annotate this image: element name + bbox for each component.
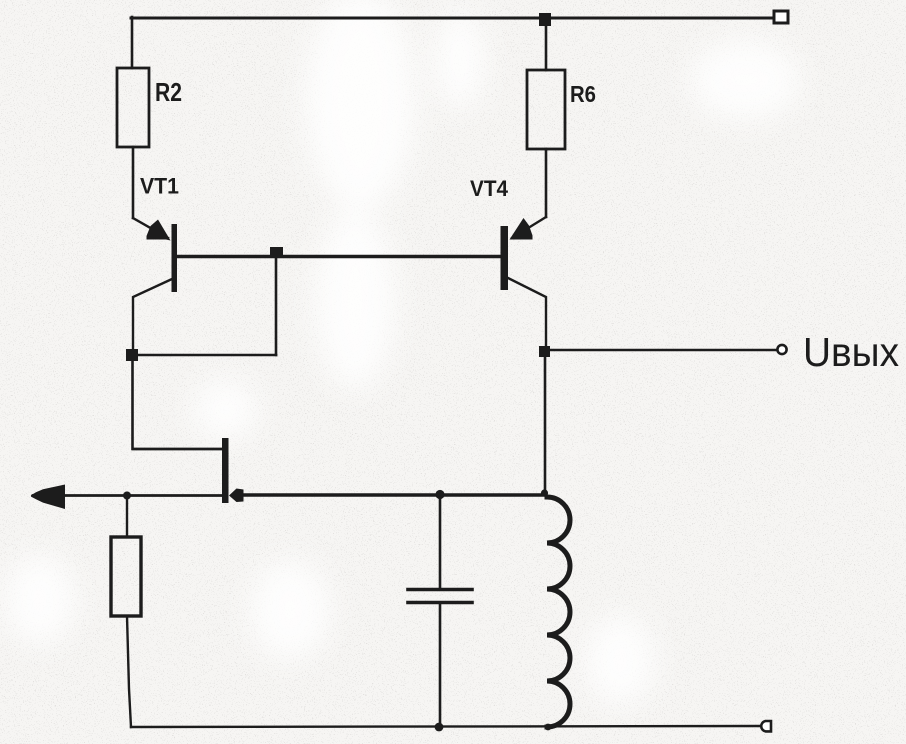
node output junction: [539, 346, 550, 357]
node tank junction: [541, 489, 548, 496]
wire R6 top lead: [545, 19, 548, 70]
svg-text:R6: R6: [570, 81, 596, 107]
transistor VT1 collector wire: [133, 279, 172, 355]
transistor VT1 emitter wire: [133, 218, 168, 238]
wire bottom rail: [131, 726, 760, 727]
wire R2 top lead: [131, 17, 134, 68]
wire capacitor bottom lead: [439, 604, 442, 727]
transistor VT4 base bar: [501, 226, 509, 290]
node capacitor junction: [435, 490, 444, 499]
wire output: [550, 349, 777, 351]
node coil bottom: [545, 724, 552, 731]
terminal bottom-right: [761, 721, 771, 731]
resistor R6: [527, 70, 565, 149]
wire VT4 collector to tank: [544, 357, 547, 492]
transistor VT4 emitter wire: [512, 217, 546, 238]
transistor VT4 emitter arrow: [510, 218, 533, 240]
transistor VT4 collector wire: [508, 278, 546, 351]
transistor VT2 collector wire: [133, 448, 222, 451]
resistor R3: [111, 537, 141, 616]
svg-text:VT1: VT1: [140, 174, 179, 199]
wire top rail: [131, 17, 773, 20]
node bottom rail capacitor: [435, 723, 444, 732]
svg-text:Uвых: Uвых: [803, 329, 899, 375]
wire capacitor top lead: [439, 495, 442, 588]
node input junction: [123, 492, 131, 500]
transistor VT2 emitter arrow: [229, 489, 244, 503]
transistor VT1 base bar: [172, 224, 178, 292]
wire VT1 base to VT4 base: [177, 255, 500, 258]
svg-text:VT4: VT4: [470, 176, 509, 201]
terminal output: [777, 345, 786, 354]
wire VT1 collector down: [133, 355, 223, 449]
wire input horizontal: [33, 494, 222, 497]
wire R3 top lead: [126, 495, 128, 537]
node top rail junction: [539, 13, 551, 26]
transistor VT1 emitter arrow: [147, 220, 171, 241]
wire R3 bottom lead: [127, 616, 131, 727]
svg-text:R2: R2: [155, 77, 182, 107]
arrow input: [31, 485, 65, 510]
node VT1 collector: [126, 349, 138, 361]
wire R6 bottom lead: [545, 149, 548, 217]
wire VT2 emitter to tank: [242, 493, 545, 496]
wire feedback vertical: [275, 258, 278, 355]
terminal top-right: [774, 11, 788, 23]
wire feedback horizontal: [132, 354, 276, 357]
inductor L coil: [547, 497, 570, 727]
transistor VT2 base bar: [222, 438, 229, 503]
node base junction: [270, 247, 283, 258]
wire R2 bottom lead: [132, 147, 135, 218]
resistor R2: [117, 68, 149, 147]
capacitor C bottom plate: [408, 601, 472, 605]
capacitor C top plate: [408, 588, 472, 592]
